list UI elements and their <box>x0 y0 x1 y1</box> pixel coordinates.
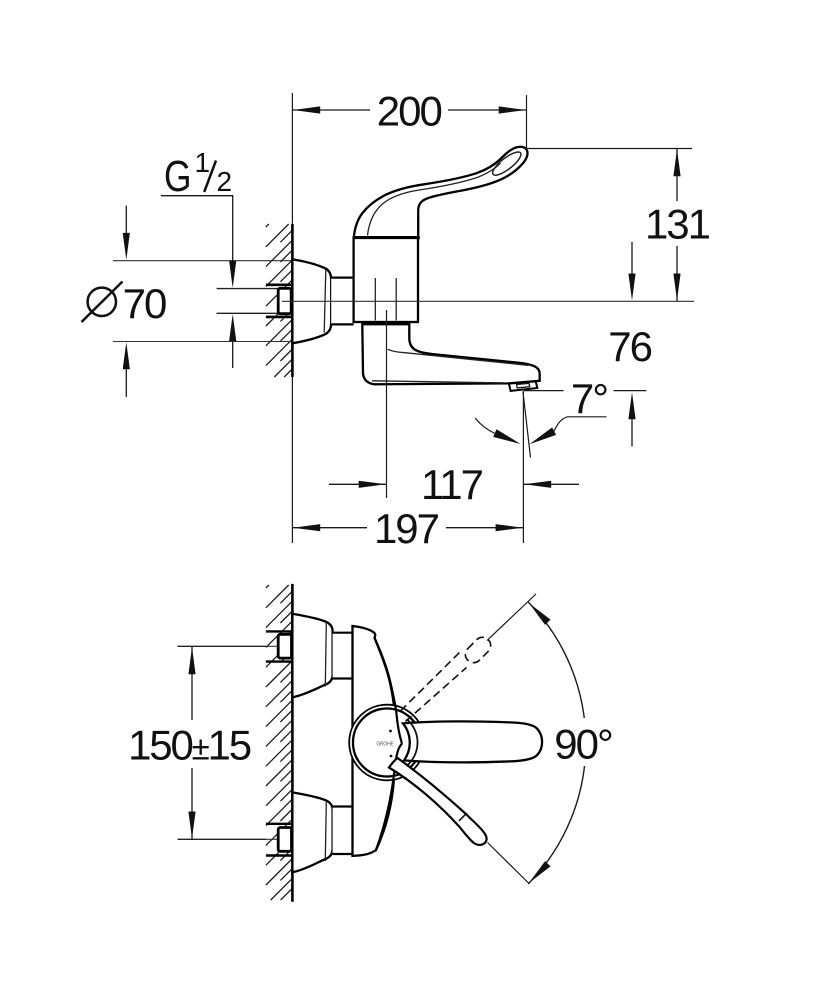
radius line lower <box>488 843 530 884</box>
top supply extension line <box>178 645 293 647</box>
radius line upper <box>487 594 536 641</box>
valve body column <box>354 238 418 322</box>
extension line escutcheon top (for dim 70) <box>113 260 292 262</box>
spout inner top line <box>388 349 528 365</box>
arc 90deg <box>528 602 586 884</box>
extension line column axis <box>386 310 388 498</box>
dim 197 <box>292 527 523 529</box>
extension line spout outlet level <box>524 390 564 392</box>
wall line (side view) <box>291 93 293 543</box>
svg-text:70: 70 <box>123 280 166 327</box>
svg-text:150±15: 150±15 <box>128 721 251 768</box>
dim 200 <box>292 109 526 111</box>
lever dashed up 45deg (plan) <box>401 634 495 722</box>
dim 76 lower arrow <box>628 392 635 419</box>
extension line handle top <box>524 148 692 150</box>
top nipple <box>278 634 291 658</box>
dim 131 <box>676 149 678 302</box>
supply pipe G1/2 <box>217 288 279 290</box>
lever handle (side view) <box>354 147 528 237</box>
svg-text:197: 197 <box>374 505 439 552</box>
dim 150+-15 <box>178 645 267 647</box>
dome <box>353 709 421 777</box>
svg-text:76: 76 <box>608 323 651 370</box>
body (plan) <box>353 626 395 856</box>
bottom connector <box>333 807 353 855</box>
svg-text:90°: 90° <box>554 720 612 767</box>
aerator <box>509 381 537 391</box>
body edge overlay lower <box>376 744 402 851</box>
svg-text:7°: 7° <box>571 375 607 422</box>
bottom supply extension line <box>178 838 293 840</box>
wall hatching (side view) <box>266 224 293 377</box>
text 90 degrees <box>552 718 614 766</box>
extension line spout tip vertical <box>522 391 524 543</box>
wall line (plan view) <box>291 584 294 902</box>
7deg arc left with arrow <box>475 418 495 433</box>
body edge overlay upper <box>375 638 403 744</box>
dim 117 <box>329 483 387 485</box>
bottom escutcheon (plan) <box>292 792 332 872</box>
top escutcheon (plan) <box>292 614 332 697</box>
dim 76 upper arrow <box>631 242 633 274</box>
svg-text:GROHE: GROHE <box>376 742 394 748</box>
lever root arc <box>407 719 418 766</box>
lever inner highlight line <box>368 163 501 235</box>
dome outer ring <box>349 705 425 781</box>
svg-text:117: 117 <box>421 461 483 508</box>
lever horizontal (plan) <box>403 721 542 762</box>
svg-text:G: G <box>164 152 192 201</box>
lever tip inner loop <box>490 148 524 178</box>
label diameter 70 <box>88 288 116 316</box>
wall socket fitting <box>266 283 293 286</box>
dim 70 arrows <box>125 206 127 234</box>
centerline valve axis <box>282 300 694 302</box>
extension line escutcheon bottom (for dim 70) <box>113 341 292 343</box>
bottom nipple <box>278 828 291 852</box>
lever diagonal down (plan) <box>389 758 487 845</box>
extension line 200 right <box>526 95 528 150</box>
connection nipple <box>278 288 291 313</box>
svg-text:131: 131 <box>645 201 710 248</box>
handle cap bottom line <box>354 236 420 239</box>
escutcheon (side view) <box>292 259 331 343</box>
bottom wall socket <box>266 823 293 825</box>
spout <box>362 324 539 384</box>
7deg leader line <box>554 417 607 432</box>
top wall socket <box>266 630 293 632</box>
top connector <box>333 633 353 679</box>
svg-text:200: 200 <box>377 88 442 135</box>
water direction 7deg slant line <box>523 392 531 458</box>
G1/2 leader line <box>161 196 233 262</box>
svg-text:2: 2 <box>217 166 233 197</box>
7deg arrow right <box>529 427 556 444</box>
svg-text:1: 1 <box>195 147 211 178</box>
spout inner bottom line <box>372 381 504 383</box>
connector cylinder <box>331 278 353 325</box>
wall hatching (plan view) <box>266 585 293 900</box>
